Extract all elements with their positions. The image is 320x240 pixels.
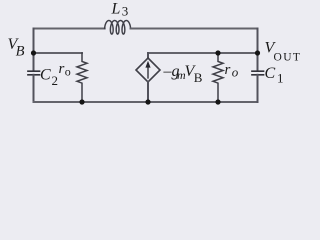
svg-text:r: r xyxy=(225,62,231,78)
wire current source top lead xyxy=(147,53,149,58)
wire left vertical lower xyxy=(33,75,35,102)
svg-text:3: 3 xyxy=(122,4,129,19)
wire bottom horizontal xyxy=(34,101,258,103)
node VOUT dot xyxy=(255,50,260,55)
node source bottom dot xyxy=(145,99,150,104)
resistor ro right xyxy=(213,53,223,102)
svg-text:o: o xyxy=(232,65,239,80)
current source arrow xyxy=(146,62,150,78)
node ro-left bottom dot xyxy=(79,99,84,104)
wire VOUT segment xyxy=(148,52,258,54)
wire right vertical upper xyxy=(257,29,259,72)
svg-text:C: C xyxy=(40,67,51,84)
svg-text:2: 2 xyxy=(52,73,59,88)
svg-text:L: L xyxy=(111,1,121,18)
wire VB node to left resistor xyxy=(34,52,83,54)
capacitor C1 xyxy=(252,71,264,75)
wire top-right horizontal xyxy=(131,28,258,30)
svg-text:B: B xyxy=(16,44,25,60)
svg-text:C: C xyxy=(265,65,276,82)
node ro-right top dot xyxy=(215,50,220,55)
node VB dot xyxy=(31,50,36,55)
capacitor C2 xyxy=(28,71,40,75)
node ro-right bottom dot xyxy=(215,99,220,104)
wire left vertical upper xyxy=(33,29,35,72)
wire current source bottom lead xyxy=(147,82,149,102)
svg-text:r: r xyxy=(59,61,65,77)
wire top-left horizontal xyxy=(34,28,105,30)
current source -gmVB diamond xyxy=(136,58,160,82)
svg-text:OUT: OUT xyxy=(274,52,302,64)
svg-text:1: 1 xyxy=(277,71,284,86)
resistor ro left xyxy=(77,53,87,102)
svg-text:o: o xyxy=(65,65,71,79)
inductor L3 xyxy=(105,21,131,35)
wire right vertical lower xyxy=(257,75,259,102)
svg-text:B: B xyxy=(194,70,203,85)
